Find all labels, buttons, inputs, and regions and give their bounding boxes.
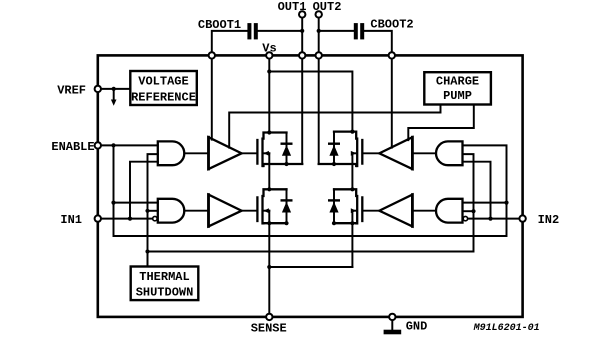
pin OUT2 terminal — [316, 11, 322, 17]
junction at OUT1/CBOOT1 — [300, 29, 304, 33]
svg-text:PUMP: PUMP — [443, 89, 472, 103]
svg-text:VREF: VREF — [57, 83, 86, 97]
wire Q4 source to sense rail — [351, 211, 353, 267]
capacitor CBOOT2 — [354, 23, 364, 39]
pin Vs junction — [266, 52, 272, 58]
pin ENABLE wire to AND U3 — [98, 144, 158, 146]
wire U6 output to driver A4 — [412, 210, 436, 212]
pin OUT2 — [318, 14, 320, 164]
svg-text:CHARGE: CHARGE — [436, 75, 479, 89]
wire CBOOT2 to driver U2 supply — [391, 55, 393, 147]
wire U3 output to driver A1 — [184, 152, 208, 154]
transistor Q1 (upper left DMOS) — [257, 133, 302, 167]
wire U5 output to driver A3 — [412, 152, 436, 154]
transistor Q3 (lower left DMOS) — [257, 189, 286, 223]
charge pump box — [424, 72, 491, 104]
thermal shutdown box — [131, 267, 199, 301]
IC package outline — [98, 55, 523, 317]
wire Vs rail to right half bridge — [269, 72, 352, 132]
svg-text:IN2: IN2 — [538, 213, 560, 227]
wire ENABLE vertical / rail to right gates — [111, 143, 115, 147]
wire thermal rail to right gates — [148, 154, 474, 251]
svg-text:SHUTDOWN: SHUTDOWN — [136, 286, 194, 300]
wire A2 to Q3 gate — [242, 210, 257, 212]
wire ENABLE tap to AND U4 — [111, 201, 115, 205]
inverting bubble U6 — [463, 216, 467, 220]
op-amp A1 (upper left driver) — [209, 137, 242, 169]
pin circles — [95, 11, 526, 320]
Q1 body stub and arrow — [264, 152, 269, 154]
AND gate U4 (lower left) — [158, 199, 185, 223]
diode D2 (Q2 body diode) — [333, 132, 335, 164]
wire OUT2 line to capacitor CBOOT2 — [319, 30, 354, 32]
wire CBOOT1 left leg (top line to capacitor) — [212, 31, 248, 56]
wire charge pump to driver U2 — [408, 105, 474, 141]
pin OUT1 terminal — [299, 11, 305, 17]
wire ENABLE tap to AND U6 — [504, 201, 508, 205]
inverting bubble U4 — [153, 216, 157, 220]
wire IN2 to AND U5 input — [488, 217, 492, 221]
op-amp A4 (lower right driver) — [379, 195, 412, 227]
AND gate U5 (upper right) — [436, 141, 463, 165]
capacitor CBOOT1 — [247, 23, 257, 39]
junction at OUT2/CBOOT2 — [317, 29, 321, 33]
voltage reference box — [130, 71, 197, 105]
wire A4 to Q4 gate — [363, 210, 379, 212]
wire A3 to Q2 gate — [363, 152, 379, 154]
svg-text:CBOOT1: CBOOT1 — [198, 18, 241, 32]
AND gate U6 (lower right) — [436, 199, 463, 223]
Q4 body stub and arrow — [352, 210, 355, 212]
wire CBOOT1 to driver U1 supply — [211, 55, 213, 139]
svg-text:M91L6201-01: M91L6201-01 — [473, 323, 540, 334]
wire sense rail — [269, 266, 352, 268]
ground GND symbol — [391, 317, 393, 330]
wire A1 to Q1 gate — [242, 152, 257, 154]
pin ENABLE terminal — [95, 142, 101, 148]
pin IN1 terminal — [95, 215, 101, 221]
wire thermal box stub — [147, 252, 149, 267]
pin VREF wire — [98, 88, 131, 90]
wire charge pump rail to driver U1 — [229, 105, 440, 148]
op-amp A3 (upper right driver) — [379, 137, 412, 169]
pin IN2 terminal — [519, 215, 525, 221]
pin SENSE terminal — [266, 314, 272, 320]
wire capacitor CBOOT1 to OUT1 line — [257, 30, 302, 32]
svg-text:VOLTAGE: VOLTAGE — [138, 75, 188, 89]
pin OUT1 — [301, 14, 303, 164]
transistor Q4 (lower right DMOS) — [334, 189, 362, 223]
node OUT2 junction — [316, 52, 322, 58]
pin VREF terminal — [95, 86, 101, 92]
Q2 body stub and arrow — [352, 152, 355, 154]
node CBOOT1 junction — [209, 52, 215, 58]
svg-text:SENSE: SENSE — [251, 322, 287, 336]
pin IN2 wire — [468, 218, 522, 220]
transistor Q2 (upper right DMOS) — [319, 132, 363, 166]
op-amp A2 (lower left driver) — [209, 195, 242, 227]
svg-text:ENABLE: ENABLE — [51, 140, 94, 154]
AND gate U3 (upper left) — [158, 141, 185, 165]
pin GND terminal — [389, 314, 395, 320]
svg-text:IN1: IN1 — [60, 213, 82, 227]
node CBOOT2 junction — [389, 52, 395, 58]
svg-text:GND: GND — [406, 320, 428, 334]
wire Q3 source to SENSE pin — [268, 211, 270, 317]
current source arrow at VREF — [112, 87, 116, 91]
diode D4 (Q4 body diode) — [333, 189, 335, 223]
pin IN1 wire — [98, 218, 152, 220]
node Vs vertical to upper-left DMOS drain — [268, 55, 270, 132]
svg-text:REFERENCE: REFERENCE — [131, 91, 196, 105]
diode D1 (Q1 body diode) — [286, 133, 288, 165]
Q3 body stub and arrow — [264, 210, 269, 212]
diode D3 (Q3 body diode) — [286, 189, 288, 223]
svg-text:THERMAL: THERMAL — [139, 270, 189, 284]
node OUT1 junction — [299, 52, 305, 58]
wire capacitor CBOOT2 right leg down to top line — [364, 31, 392, 56]
wire thermal line left (AND U3 / AND U4 / rail) — [148, 154, 158, 266]
wire U4 output to driver A2 — [184, 210, 208, 212]
svg-text:CBOOT2: CBOOT2 — [370, 18, 413, 32]
wire IN1 to AND U3 input — [128, 217, 132, 221]
